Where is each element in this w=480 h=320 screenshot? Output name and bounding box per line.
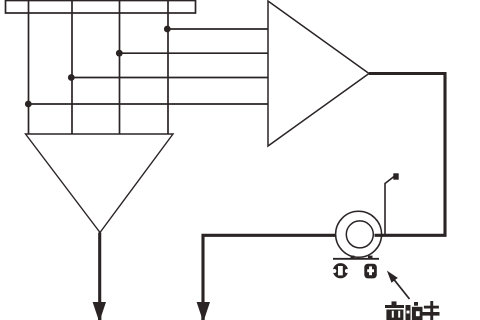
knob inner circle — [346, 221, 373, 248]
knob base line — [333, 258, 379, 260]
wire column 2 — [71, 1, 73, 135]
switch box — [6, 1, 196, 14]
node dot 2 — [68, 74, 75, 81]
wire column 3 — [119, 1, 121, 135]
pointer arrow to terminal — [387, 271, 410, 299]
wire: knob left to output arrow — [203, 235, 336, 303]
node dot 3 — [116, 50, 123, 57]
wire row 1 — [168, 28, 268, 30]
node dot 4 — [164, 26, 171, 33]
screw terminal B — [364, 264, 377, 279]
screw terminal A — [332, 263, 349, 278]
wire: amplifier output to knob — [369, 74, 445, 236]
wire column 1 — [28, 1, 30, 135]
wiper arrow of knob — [385, 177, 394, 236]
node dot 1 — [25, 101, 32, 108]
amplifier triangle U1 — [268, 1, 369, 146]
wire row 3 — [72, 77, 268, 79]
wire: mixer output down — [98, 233, 101, 304]
label terminal text char 3 — [423, 301, 440, 320]
label terminal text char 1 — [385, 301, 404, 320]
wire: stub through knob ring (right) — [375, 234, 384, 237]
base stub right — [368, 256, 373, 259]
arrow down (right output) — [201, 303, 204, 320]
mixer triangle pointing down — [26, 134, 174, 233]
arrow down (left output) — [98, 303, 101, 320]
base stub left — [351, 256, 355, 259]
wire row 2 — [120, 52, 269, 54]
wire column 4 — [167, 1, 169, 135]
label terminal text char 2 — [406, 302, 423, 320]
knob outer circle — [336, 211, 382, 257]
wire row 4 — [29, 103, 269, 105]
